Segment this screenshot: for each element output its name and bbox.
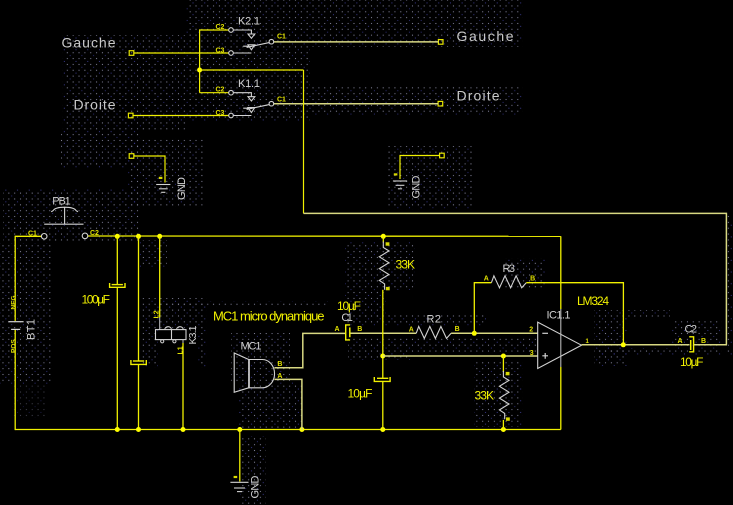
svg-text:A: A [678, 338, 683, 345]
wire branch x=117.3 lower [116, 288, 118, 430]
resistor R2 [409, 313, 460, 338]
wire R2 B to op-amp pin2 [451, 332, 538, 334]
op-amp IC1.1 [529, 294, 609, 369]
svg-text:33K: 33K [475, 388, 495, 402]
junction bottom bus x=382.8 [380, 427, 385, 432]
svg-text:R2: R2 [427, 313, 442, 325]
svg-text:3: 3 [530, 350, 534, 357]
port Gauche left [129, 51, 134, 56]
svg-text:C2: C2 [216, 24, 225, 31]
wire branch x=138.5 lower [138, 364, 140, 430]
svg-text:Gauche: Gauche [457, 28, 514, 44]
svg-text:10µF: 10µF [348, 387, 373, 401]
svg-text:IC1.1: IC1.1 [547, 309, 571, 321]
junction at (474.3,333.3) [472, 331, 477, 336]
wire K1.1 C2 feed (corner) [200, 92, 229, 94]
svg-text:33K: 33K [396, 258, 416, 272]
wire port to GND symbol (left) [134, 156, 165, 183]
junction top bus x=159.7 [157, 234, 162, 239]
svg-text:C1: C1 [341, 312, 353, 324]
battery BT1 [8, 295, 37, 353]
wire 33K top to cap chain (x=382.8) [382, 290, 384, 378]
capacitor 100uF (on x=117.3) [110, 283, 125, 287]
svg-text:10µF: 10µF [337, 299, 361, 313]
svg-text:Droite: Droite [74, 97, 116, 113]
svg-text:R3: R3 [503, 263, 516, 275]
wire MC1 B to C1 [274, 333, 345, 367]
ground symbol (right top) [393, 181, 407, 189]
wire branch x=138.5 upper [138, 236, 140, 361]
ground symbol (left top) [156, 185, 170, 193]
svg-text:MC1 micro dynamique: MC1 micro dynamique [213, 309, 325, 324]
wire K2.1 C1 to Gauche-right port [274, 41, 439, 43]
junction bottom bus x=503.4 [501, 427, 506, 432]
wire long top net to output [304, 213, 727, 344]
junction top bus x=383.3 [381, 234, 386, 239]
pin A mark 33K bottom [506, 372, 510, 375]
junction top bus x=138.5 [136, 234, 141, 239]
junction at (199.6,70) [197, 68, 202, 73]
wire battery branch lower [14, 330, 16, 430]
capacitor C2 [678, 323, 707, 352]
svg-text:10µF: 10µF [680, 355, 704, 369]
svg-text:GND: GND [176, 177, 188, 200]
svg-text:C1: C1 [28, 230, 37, 237]
wire coil L1 to bottom bus [182, 343, 184, 430]
svg-text:A: A [484, 275, 489, 282]
wire bottom GND branch [239, 430, 241, 482]
svg-text:100µF: 100µF [82, 293, 111, 307]
svg-text:MC1: MC1 [241, 341, 262, 353]
push button PB1 [28, 196, 99, 240]
svg-text:Droite: Droite [457, 88, 500, 104]
svg-text:POS: POS [11, 339, 18, 353]
wire Gauche-left to K2.1 C3 [134, 52, 229, 54]
wire 33K bottom to bus [502, 420, 504, 430]
wire V- vertical right x=560.8 (lower) [560, 367, 562, 430]
wire bottom bus [15, 429, 561, 431]
svg-text:C1: C1 [277, 97, 286, 104]
svg-text:BT1: BT1 [26, 319, 38, 340]
wire branch x=117.3 upper [116, 236, 118, 284]
wire MC1 A to bottom bus [274, 379, 302, 430]
svg-text:GND: GND [250, 475, 262, 498]
wire cap to bottom bus [382, 381, 384, 430]
wire V+ vertical right x=560.8 (upper) [560, 236, 562, 309]
relay contact K2.1 [216, 16, 287, 56]
svg-text:C3: C3 [216, 110, 225, 117]
wire port to GND symbol (right) [400, 156, 440, 180]
svg-text:C3: C3 [216, 48, 225, 55]
wire noninverting input [383, 355, 538, 357]
microphone MC1 [234, 341, 282, 393]
svg-text:B: B [455, 326, 460, 333]
wire C1 B to R2 A [351, 332, 417, 334]
svg-text:C2: C2 [685, 323, 698, 335]
resistor 33K (bottom) [499, 371, 509, 419]
svg-text:K1.1: K1.1 [238, 78, 260, 90]
svg-text:PB1: PB1 [52, 196, 71, 208]
svg-text:B: B [530, 275, 535, 282]
wire branch x=159.7 to relay coil [159, 236, 161, 317]
junction bottom bus x=138.5 [136, 427, 141, 432]
capacitor (on x=138.5) [131, 360, 146, 364]
capacitor 10uF (lower, on x=382.8) [374, 377, 390, 381]
pin 1 mark GND left [159, 177, 163, 179]
svg-text:K3.1: K3.1 [187, 325, 199, 344]
junction at (382.8,356) [380, 354, 385, 359]
wire op-amp output [582, 344, 690, 346]
svg-text:GND: GND [411, 175, 423, 198]
svg-text:C2: C2 [216, 87, 225, 94]
wire junction to common vertical [200, 69, 304, 71]
resistor R3 [484, 263, 535, 288]
svg-text:K2.1: K2.1 [238, 16, 260, 28]
pin B mark 33K top [386, 287, 390, 290]
junction bottom bus x=117.3 [115, 427, 120, 432]
svg-text:LM324: LM324 [577, 294, 609, 308]
svg-text:L2: L2 [154, 310, 161, 318]
relay coil K3.1 [154, 310, 200, 354]
wire down to 33K bottom [502, 356, 504, 372]
port GND right-top [440, 153, 445, 158]
junction bottom bus x=239.8 [237, 427, 242, 432]
wire vertical net between K2.1 and K1.1 [199, 29, 201, 92]
pin 1 mark GND bottom [234, 476, 238, 478]
wire C2 B to right vertical [694, 344, 727, 346]
port Droite left [128, 113, 133, 118]
junction bottom bus x=301.9 [299, 427, 304, 432]
svg-text:C2: C2 [90, 230, 99, 237]
wire Droite-left to K1.1 C3 [133, 115, 229, 117]
svg-text:A: A [335, 326, 340, 333]
resistor 33K (top) [379, 242, 389, 290]
wire common vertical x=303.5 [303, 70, 305, 213]
wire battery branch upper [14, 236, 16, 321]
svg-text:A: A [409, 326, 414, 333]
svg-text:NEG: NEG [11, 295, 18, 309]
ground symbol (bottom) [230, 482, 248, 491]
port Droite right [438, 101, 443, 106]
relay contact K1.1 [216, 78, 287, 118]
svg-text:B: B [701, 338, 706, 345]
svg-text:C1: C1 [277, 34, 286, 41]
svg-text:B: B [357, 326, 362, 333]
junction at (623.3,344.8) [621, 342, 626, 347]
svg-text:B: B [277, 361, 282, 368]
svg-text:2: 2 [529, 327, 533, 334]
wire K1.1 C1 to Droite-right port [274, 103, 438, 105]
pin B mark 33K bottom [506, 417, 510, 420]
port GND left-top [129, 154, 134, 159]
wire top bus main segment [88, 235, 561, 237]
wire 33K top feed [382, 236, 384, 242]
pin 1 mark GND right [394, 173, 398, 175]
junction at (503.4,356) [501, 354, 506, 359]
wire feedback up to R3 A [474, 283, 491, 334]
wire top bus left segment [15, 235, 41, 237]
junction top bus x=117.3 [115, 234, 120, 239]
svg-text:Gauche: Gauche [62, 35, 116, 51]
wire R3 B to output junction [526, 283, 623, 345]
junction bottom bus x=183 [181, 427, 186, 432]
pin A mark 33K top [386, 242, 390, 245]
port Gauche right [438, 40, 443, 45]
wire K2.1 C2 feed (corner) [200, 29, 229, 31]
capacitor C1 [335, 312, 363, 340]
